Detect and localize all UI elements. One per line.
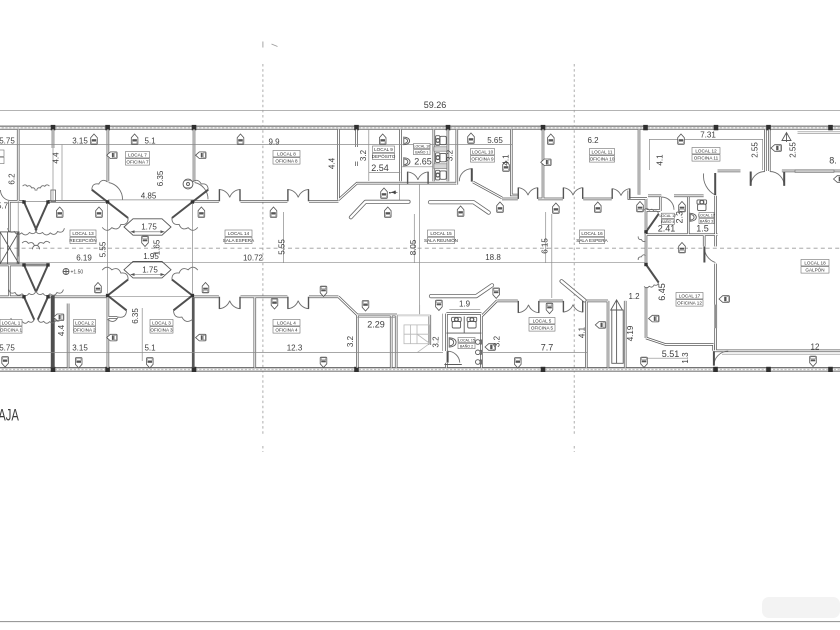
room label local18 — [801, 260, 829, 274]
svg-text:LOCAL 9: LOCAL 9 — [374, 147, 393, 152]
axis tick top — [263, 42, 278, 48]
window poché local 17 — [715, 305, 718, 329]
column top 5 — [446, 125, 451, 130]
door arc galpon south — [714, 351, 728, 365]
svg-text:6.2: 6.2 — [587, 136, 599, 145]
room label local8 — [273, 151, 300, 165]
south exterior wall — [0, 368, 840, 372]
svg-text:OFICINA 1: OFICINA 1 — [0, 328, 23, 333]
wc stall wall local15 — [463, 316, 465, 333]
svg-text:3.2: 3.2 — [432, 336, 441, 348]
door tag 7 — [678, 134, 685, 144]
door tag 9 — [503, 161, 510, 171]
door double-acting reception north right — [172, 180, 208, 230]
door arc bath1 right — [459, 168, 472, 181]
reception counter south — [431, 285, 492, 296]
svg-text:4.85: 4.85 — [141, 192, 157, 201]
door tag 30 — [362, 301, 369, 311]
threshold wc2 — [444, 364, 461, 366]
svg-text:5.51: 5.51 — [662, 349, 680, 359]
door tag 19 — [270, 207, 277, 217]
room label local5 — [529, 318, 555, 332]
svg-text:BAÑO 3: BAÑO 3 — [700, 218, 713, 223]
door double local8 b — [287, 189, 309, 201]
column top 1 — [51, 125, 56, 130]
door tag 13 — [834, 176, 840, 183]
door double local5 a — [518, 301, 540, 313]
svg-text:SALA ESPERA: SALA ESPERA — [223, 238, 255, 243]
room label bano4 — [659, 213, 676, 224]
door tag 15 — [95, 283, 102, 293]
door arc wc3 a — [662, 197, 674, 210]
door tag 40 — [485, 344, 495, 351]
svg-text:10.72: 10.72 — [243, 254, 264, 263]
svg-text:1.5: 1.5 — [696, 224, 709, 234]
svg-text:+1.50: +1.50 — [71, 270, 84, 276]
wc stall walls — [434, 147, 447, 151]
room label local16 — [576, 230, 608, 244]
svg-text:OFICINA 8: OFICINA 8 — [275, 159, 298, 164]
door tag 49 — [810, 356, 817, 366]
dim arrow 1 — [392, 191, 398, 194]
window band galpon north — [795, 170, 834, 173]
door tag 32 — [436, 300, 443, 310]
svg-text:LOCAL 13: LOCAL 13 — [72, 231, 94, 236]
door tag 47 — [515, 358, 522, 368]
door tag 31 — [271, 299, 278, 309]
grid axis vertical B — [573, 64, 575, 436]
door arc local7 left — [109, 183, 123, 200]
svg-text:7.31: 7.31 — [700, 131, 716, 140]
door tag 6 — [548, 134, 555, 144]
sink wc2 — [449, 337, 456, 347]
level marker +1.50 — [63, 269, 83, 276]
door double-acting passage south — [638, 255, 658, 288]
column top 3 — [192, 125, 197, 130]
svg-text:LOCAL 17: LOCAL 17 — [679, 294, 701, 299]
entry double door south — [9, 241, 64, 295]
toilet wc1-2 — [436, 153, 447, 163]
svg-text:2.3: 2.3 — [674, 211, 684, 224]
column bottom 7 — [766, 367, 771, 372]
toilet wc1-1 — [436, 136, 447, 146]
door tag 48 — [641, 357, 648, 367]
svg-text:6.35: 6.35 — [131, 308, 140, 324]
svg-text:4.4: 4.4 — [328, 157, 337, 169]
door tag 41 — [649, 315, 659, 322]
svg-text:LOCAL 16: LOCAL 16 — [581, 231, 603, 236]
svg-text:LOCAL 14: LOCAL 14 — [228, 231, 250, 236]
svg-text:RECEPCIÓN: RECEPCIÓN — [69, 237, 96, 243]
svg-text:BAÑO 1: BAÑO 1 — [415, 149, 428, 154]
svg-text:5.55: 5.55 — [278, 239, 287, 255]
svg-text:LOCAL 17: LOCAL 17 — [698, 213, 715, 217]
svg-text:2.29: 2.29 — [367, 320, 385, 330]
marker triangle — [782, 133, 791, 143]
door tag 10 — [196, 152, 206, 159]
svg-text:6.35: 6.35 — [156, 170, 165, 186]
svg-text:6.2: 6.2 — [8, 173, 17, 185]
svg-text:OFICINA 10: OFICINA 10 — [590, 157, 615, 162]
overall dimension line 59.26 — [0, 109, 840, 111]
svg-text:BAÑO 2: BAÑO 2 — [460, 343, 473, 348]
door double bath1 — [407, 172, 429, 184]
door tag 42 — [719, 296, 729, 303]
svg-text:12: 12 — [811, 343, 820, 352]
svg-text:LOCAL 15: LOCAL 15 — [430, 231, 452, 236]
entry double door north — [8, 185, 65, 235]
door tag 17 — [96, 207, 103, 217]
svg-text:BAJA: BAJA — [0, 406, 19, 425]
room label bano1 — [413, 144, 430, 155]
door tag 12 — [771, 145, 781, 152]
svg-text:OFICINA 9: OFICINA 9 — [471, 157, 494, 162]
svg-text:LOCAL 7: LOCAL 7 — [128, 153, 147, 158]
svg-text:2.54: 2.54 — [371, 163, 389, 173]
svg-text:OFICINA 5: OFICINA 5 — [531, 326, 554, 331]
svg-text:LOCAL 8: LOCAL 8 — [277, 152, 296, 157]
stair flight — [404, 325, 430, 352]
door tag 22 — [457, 206, 464, 216]
svg-text:59.26: 59.26 — [424, 100, 447, 110]
door tag 4 — [379, 134, 386, 144]
door tag 44 — [75, 358, 82, 368]
toilet wc2-1 — [452, 317, 462, 328]
room label local15 — [424, 230, 458, 244]
column bottom 6 — [713, 367, 718, 372]
room label local10 — [471, 149, 495, 163]
svg-text:8.: 8. — [829, 156, 837, 166]
window sill line top right — [798, 132, 840, 134]
column top 9 — [766, 125, 771, 130]
room label cut left — [0, 150, 4, 156]
svg-text:6.19: 6.19 — [76, 254, 92, 263]
svg-text:LOCAL 1: LOCAL 1 — [2, 321, 21, 326]
door tag 29 — [320, 286, 327, 296]
svg-text:1: 1 — [388, 190, 397, 195]
svg-text:4.1: 4.1 — [656, 154, 665, 166]
svg-text:LOCAL 15: LOCAL 15 — [458, 338, 475, 342]
svg-text:GALPÓN: GALPÓN — [805, 267, 824, 273]
svg-text:1.75: 1.75 — [142, 265, 158, 274]
svg-text:4.4: 4.4 — [57, 324, 66, 336]
door tag 45 — [147, 358, 154, 368]
door arc local17 east — [704, 247, 715, 263]
svg-text:4.1: 4.1 — [502, 154, 511, 166]
door arc galpon entry right — [770, 172, 784, 186]
stair landing band — [397, 314, 430, 316]
svg-text:9.9: 9.9 — [268, 138, 280, 147]
svg-text:OFICINA 7: OFICINA 7 — [126, 160, 149, 165]
column bottom 3 — [192, 367, 197, 372]
railing reception middle — [351, 202, 409, 218]
door tag 28 — [142, 236, 149, 246]
sink bath1 a — [404, 137, 410, 146]
svg-text:3.2: 3.2 — [346, 335, 355, 347]
svg-text:OFICINA 11: OFICINA 11 — [694, 156, 719, 161]
folding door symbol south 1.75 — [124, 262, 171, 278]
column bottom 5 — [541, 367, 546, 372]
door tag 21 — [381, 188, 388, 198]
door arc local7 right — [195, 183, 208, 200]
door double local5 b — [563, 301, 583, 312]
svg-text:LOCAL 12: LOCAL 12 — [695, 149, 717, 154]
door double-acting passage north — [638, 209, 658, 242]
room label local17 — [676, 293, 703, 307]
door arc wc2 — [448, 351, 460, 362]
sheet footer line — [0, 621, 840, 623]
room label local11 — [590, 149, 615, 163]
door tag 43 — [2, 357, 9, 367]
door tag 14 — [56, 207, 63, 217]
door double local14 a — [219, 297, 241, 309]
svg-text:LOCAL 3: LOCAL 3 — [152, 321, 171, 326]
svg-text:OFICINA 3: OFICINA 3 — [150, 328, 173, 333]
watermark blob bottom right — [762, 597, 840, 618]
column top 7 — [643, 125, 648, 130]
svg-text:6.45: 6.45 — [657, 283, 667, 301]
svg-text:3.15: 3.15 — [72, 344, 88, 353]
svg-text:3.15: 3.15 — [72, 137, 88, 146]
svg-text:LOCAL 5: LOCAL 5 — [533, 319, 552, 324]
room label local7 — [126, 152, 150, 166]
room label local13 — [69, 230, 96, 244]
svg-text:LOCAL 4: LOCAL 4 — [277, 321, 296, 326]
door tag 34 — [546, 303, 553, 313]
door tag 25 — [595, 202, 602, 212]
svg-text:5.1: 5.1 — [144, 137, 156, 146]
svg-text:8.05: 8.05 — [409, 239, 418, 255]
door tag 20 — [385, 207, 392, 217]
sink wc3 — [690, 213, 696, 222]
door double local11 a — [563, 188, 583, 199]
door double-acting reception north left — [92, 180, 128, 230]
door double-acting reception south right — [172, 267, 198, 321]
column top 4 — [354, 125, 359, 130]
dimension extension lines — [0, 130, 840, 362]
door double local10 — [518, 188, 538, 199]
room label local1 — [0, 320, 23, 334]
door tag 18 — [198, 207, 205, 217]
svg-text:LOCAL 11: LOCAL 11 — [592, 150, 613, 155]
svg-text:4.1: 4.1 — [578, 326, 587, 338]
room label local14 — [223, 230, 255, 244]
room label bano2 — [458, 338, 475, 349]
door tag 8 — [107, 152, 117, 159]
svg-text:LOCAL 10: LOCAL 10 — [472, 150, 494, 155]
svg-text:1.75: 1.75 — [141, 223, 157, 232]
screen diagonal local16 — [562, 281, 585, 300]
door tag 5 — [468, 133, 475, 143]
door arc galpon entry left — [751, 172, 765, 186]
svg-text:7.7: 7.7 — [541, 343, 554, 353]
door tag 23 — [497, 202, 504, 212]
door tag 3 — [237, 134, 244, 144]
column top 6 — [541, 125, 546, 130]
svg-text:1.3: 1.3 — [681, 352, 690, 364]
svg-text:2.55: 2.55 — [789, 142, 798, 158]
room label local12 — [692, 148, 720, 162]
toilet wc3 — [697, 200, 707, 211]
door tag 26 — [637, 202, 644, 212]
svg-text:OFICINA 12: OFICINA 12 — [677, 301, 702, 306]
sink bath1 b — [404, 157, 410, 166]
thick wall local3 right — [192, 297, 195, 367]
door jamb x53 — [51, 190, 56, 202]
room label bano3 — [698, 213, 715, 224]
room label local3 — [150, 320, 173, 334]
svg-text:1.9: 1.9 — [459, 300, 471, 309]
room label local4 — [273, 320, 300, 334]
interior walls — [0, 130, 840, 368]
column top 10 — [828, 125, 833, 130]
column bottom 1 — [51, 367, 56, 372]
door arc galpon corridor — [703, 173, 715, 195]
room label local9 — [372, 146, 396, 160]
column bottom 8 — [828, 367, 833, 372]
svg-text:5.75: 5.75 — [0, 344, 15, 353]
svg-text:DEPÓSITO: DEPÓSITO — [372, 153, 396, 159]
door double local11 b — [612, 189, 631, 199]
column top 2 — [105, 125, 110, 130]
svg-text:1.2: 1.2 — [628, 292, 640, 301]
svg-text:LOCAL 18: LOCAL 18 — [804, 261, 826, 266]
door tag 46 — [320, 357, 327, 367]
svg-text:3.2: 3.2 — [359, 149, 368, 161]
elevator box — [0, 232, 19, 264]
door double local8 a — [219, 189, 241, 201]
svg-text:12.3: 12.3 — [287, 344, 303, 353]
entry double door local1 — [11, 295, 61, 323]
svg-text:5.7: 5.7 — [0, 202, 9, 211]
building centre axis horizontal — [0, 247, 840, 249]
column top 8 — [714, 125, 719, 130]
door tag 35 — [595, 322, 605, 329]
thick wall reception left — [51, 296, 55, 368]
door tag 16 — [202, 283, 209, 293]
svg-text:3.2: 3.2 — [445, 149, 454, 161]
svg-text:5.65: 5.65 — [487, 136, 503, 145]
column bottom 4 — [354, 367, 359, 372]
door tag 27 — [679, 202, 686, 212]
duct shaft arrow — [611, 300, 623, 363]
svg-text:OFICINA 4: OFICINA 4 — [275, 328, 298, 333]
svg-text:1.65: 1.65 — [153, 239, 162, 255]
urinals wc2 — [476, 340, 482, 365]
north exterior wall — [0, 126, 840, 129]
svg-text:2.65: 2.65 — [414, 157, 432, 167]
svg-text:2.41: 2.41 — [658, 224, 676, 234]
svg-text:4.19: 4.19 — [626, 325, 635, 341]
svg-text:18.8: 18.8 — [485, 253, 501, 262]
door tag 36 — [679, 243, 686, 253]
grid axis vertical A — [262, 64, 264, 436]
toilet wc1-3 — [436, 170, 447, 180]
svg-text:6.15: 6.15 — [541, 238, 550, 254]
ceiling symbol — [183, 179, 193, 189]
reception counter north — [430, 202, 489, 212]
svg-text:5.75: 5.75 — [0, 137, 15, 146]
folding door symbol north 1.75 — [124, 219, 171, 235]
door double local14 b — [287, 297, 309, 309]
door double-acting reception south left (mirrored up) — [102, 267, 128, 321]
door tag 1 — [91, 134, 98, 144]
door tag 24 — [553, 203, 560, 213]
door tag 33 — [493, 288, 500, 298]
svg-text:LOCAL 10: LOCAL 10 — [413, 144, 430, 148]
svg-text:3.2: 3.2 — [493, 335, 502, 347]
room label local2 — [73, 320, 96, 334]
svg-text:5.1: 5.1 — [144, 344, 156, 353]
column bottom 2 — [105, 367, 110, 372]
svg-text:SALA REUNIÓN: SALA REUNIÓN — [424, 237, 458, 243]
svg-text:2.55: 2.55 — [751, 142, 760, 158]
svg-text:4.4: 4.4 — [52, 152, 61, 164]
door tag 37 — [53, 314, 63, 321]
svg-text:LOCAL 2: LOCAL 2 — [75, 321, 94, 326]
door arc reception left edge — [0, 190, 9, 201]
door tag 39 — [196, 334, 206, 341]
toilet wc2-2 — [467, 317, 477, 328]
door tag 2 — [131, 134, 138, 144]
svg-text:OFICINA 2: OFICINA 2 — [73, 328, 96, 333]
svg-text:5.55: 5.55 — [99, 241, 108, 257]
door tag 38 — [107, 334, 117, 341]
svg-text:SALA ESPERA: SALA ESPERA — [576, 238, 608, 243]
door tag 11 — [541, 159, 551, 166]
